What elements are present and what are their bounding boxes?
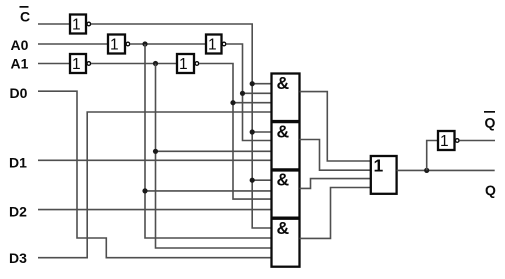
wire Q-bar output (459, 140, 495, 142)
svg-text:D2: D2 (9, 203, 27, 219)
wire stub C to AND2 pin1 (252, 131, 271, 133)
wire net A1 buffered to AND3 pin3 (199, 64, 271, 200)
svg-text:1: 1 (374, 156, 384, 176)
wire A0-bar mid segment (130, 43, 206, 45)
svg-text:A0: A0 (11, 37, 29, 53)
svg-text:A1: A1 (11, 56, 29, 72)
svg-text:1: 1 (440, 133, 449, 150)
svg-text:Q: Q (485, 115, 496, 131)
inverter U1 output bubble (87, 22, 91, 26)
wire D1 to AND2 pin4 (38, 159, 271, 161)
input label C-bar (20, 6, 31, 25)
wire AND4 output to OR pin4 (300, 188, 372, 239)
svg-text:1: 1 (179, 56, 188, 73)
svg-text:1: 1 (110, 37, 119, 54)
wire net A0 buffered to AND2 pin2 (226, 44, 271, 141)
wire net A0-bar vertical to AND4 pin2 (145, 44, 271, 238)
svg-text:C: C (20, 9, 30, 25)
wire AND2 output to OR pin2 (300, 140, 372, 171)
AND gate U9 (bottom, D0 term) (272, 218, 300, 238)
output label Q-bar (484, 111, 496, 131)
svg-text:Q: Q (485, 182, 496, 198)
svg-text:&: & (277, 73, 290, 93)
OR gate U10 (371, 156, 397, 194)
svg-text:&: & (277, 170, 290, 190)
wire OR output to Q (397, 169, 495, 171)
wire net A1-bar vertical to AND4 pin3 (156, 64, 272, 249)
AND gate U8 (D2 term) (272, 170, 300, 190)
wire stub C to AND3 pin1 (252, 179, 271, 181)
junction Q branch (424, 168, 429, 173)
wire D2 to AND3 pin4 (38, 209, 271, 211)
svg-text:D1: D1 (9, 154, 27, 170)
wire branch to Q-bar inverter (427, 141, 438, 171)
inverter U3 output bubble (222, 42, 226, 46)
wire A1 input (38, 63, 70, 65)
inverter U1 (C) (70, 15, 86, 34)
junction C/AND1 (250, 81, 255, 86)
wire stub A1-bar to AND2 pin3 (156, 150, 272, 152)
junction A1/AND1 (230, 100, 235, 105)
svg-text:1: 1 (72, 56, 81, 73)
inverter U2 (A0 first) (108, 35, 125, 54)
inverter U5 output bubble (195, 62, 199, 66)
junction A1-bar/AND2 (153, 149, 158, 154)
junction A0-bar tap (142, 41, 147, 46)
inverter U2 output bubble (126, 42, 130, 46)
wire C input (38, 23, 70, 25)
junction A0/AND1 (240, 91, 245, 96)
junction C/AND2 (250, 129, 255, 134)
junction A0-bar/AND3 (142, 188, 147, 193)
wire stub A0 to AND1 pin2 (243, 92, 272, 94)
svg-text:1: 1 (208, 37, 217, 54)
inverter U3 (A0 second) (206, 35, 222, 54)
wire net C (enable to all AND gates) (91, 24, 271, 228)
wire D0 to AND4 pin4 (38, 91, 271, 258)
svg-text:&: & (277, 218, 290, 238)
wire AND1 output to OR pin1 (300, 92, 372, 161)
wire A0 input (38, 43, 108, 45)
wire A1-bar mid segment (91, 63, 177, 65)
AND gate U6 (top, D3 term) (272, 73, 300, 267)
inverter U5 (A1 second) (177, 54, 194, 73)
junction A1-bar tap (153, 61, 158, 66)
inverter U4 output bubble (87, 62, 91, 66)
svg-text:D3: D3 (9, 250, 27, 266)
inverter U4 (A1 first) (70, 54, 86, 73)
wire AND3 output to OR pin3 (300, 179, 372, 189)
svg-text:D0: D0 (10, 85, 28, 101)
junction C/AND3 (250, 178, 255, 183)
svg-text:1: 1 (72, 17, 81, 34)
inverter U11 (Q-bar) (438, 131, 455, 150)
wire D3 to AND1 pin4 (38, 112, 271, 258)
AND gate U7 (D1 term) (272, 121, 300, 141)
inverter U11 output bubble (455, 139, 459, 143)
svg-text:&: & (277, 121, 290, 141)
wire stub C to AND1 pin1 (252, 83, 271, 85)
wire stub A0-bar to AND3 pin2 (145, 190, 271, 192)
wire stub A1 to AND1 pin3 (233, 102, 271, 104)
